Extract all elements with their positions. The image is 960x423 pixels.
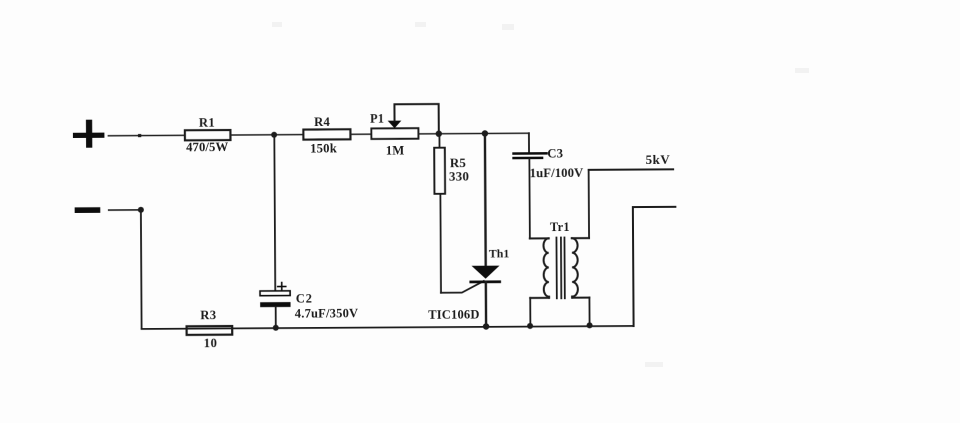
svg-text:4.7uF/350V: 4.7uF/350V <box>295 306 359 320</box>
node tick on plus wire <box>138 134 141 137</box>
resistor R1 <box>185 115 231 154</box>
bottom rail wire <box>142 326 634 329</box>
wire P1 to node C <box>418 132 528 135</box>
capacitor C2 polarity plus <box>278 282 286 290</box>
node minus corner dot <box>138 207 144 213</box>
node B junction dot <box>436 131 442 137</box>
wire Tr1 secondary to 5kV <box>588 170 590 238</box>
resistor R5 <box>434 134 469 194</box>
wire plus to R1 <box>108 134 184 136</box>
thyristor Th1 <box>427 133 510 327</box>
capacitor C2 <box>260 290 358 321</box>
svg-text:C2: C2 <box>296 291 313 305</box>
gate lead of Th1 <box>441 281 484 293</box>
wire R1 to R4 <box>230 134 303 136</box>
node Tr1 left bottom dot <box>527 323 533 329</box>
node C junction dot <box>482 130 488 136</box>
svg-text:R4: R4 <box>314 115 331 129</box>
plus terminal <box>73 120 105 148</box>
node A junction dot <box>271 132 277 138</box>
output wire 5kV <box>589 152 674 170</box>
potentiometer P1 <box>370 111 418 157</box>
svg-text:Tr1: Tr1 <box>550 220 570 234</box>
wire node C to C3 corner <box>528 133 530 151</box>
svg-text:330: 330 <box>449 169 469 184</box>
svg-text:R3: R3 <box>200 308 216 322</box>
wire C3 to Tr1 primary top <box>528 159 530 238</box>
node Tr1 right bottom dot <box>587 322 593 328</box>
resistor R3 <box>186 308 232 350</box>
wire minus to corner <box>109 209 141 211</box>
transformer Tr1 <box>530 220 590 327</box>
wire minus corner down <box>140 210 143 329</box>
svg-text:P1: P1 <box>370 112 384 126</box>
minus terminal <box>75 207 101 213</box>
svg-text:5kV: 5kV <box>646 152 671 167</box>
svg-text:R1: R1 <box>199 115 215 129</box>
wire R4 to P1 <box>350 133 371 135</box>
svg-text:150k: 150k <box>310 142 338 156</box>
wire R5 to gate <box>439 194 442 293</box>
resistor R4 <box>303 115 350 156</box>
wire C2 to bottom rail <box>275 307 277 328</box>
wiper wire of P1 <box>394 104 438 134</box>
wire node A down to C2 <box>273 135 276 291</box>
svg-text:1M: 1M <box>386 143 405 157</box>
svg-text:470/5W: 470/5W <box>186 140 228 154</box>
capacitor C3 <box>513 146 584 180</box>
svg-text:C3: C3 <box>547 146 563 160</box>
svg-text:TIC106D: TIC106D <box>428 307 479 321</box>
svg-text:1uF/100V: 1uF/100V <box>530 166 584 180</box>
node C2 bottom dot <box>273 325 279 331</box>
node Th1 bottom dot <box>483 323 489 329</box>
wire bottom rail up to output 2 <box>633 207 676 326</box>
svg-text:10: 10 <box>204 336 218 350</box>
svg-text:Th1: Th1 <box>489 246 510 260</box>
